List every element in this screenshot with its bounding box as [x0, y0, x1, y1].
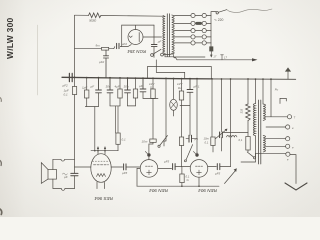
terminal circle B	[286, 125, 290, 129]
svg-text:µF2: µF2	[63, 84, 69, 88]
transformer T1 right winding	[172, 15, 174, 54]
transformer T2 right winding upper	[262, 79, 264, 104]
svg-text:D1: D1	[150, 86, 154, 90]
terminal circle row4 a	[191, 35, 195, 39]
resistor 9m (box)	[75, 48, 102, 50]
capacitor 30n (below bus 3)	[107, 78, 113, 93]
svg-text:1µF: 1µF	[82, 86, 87, 90]
svg-text:Pu: Pu	[275, 88, 279, 92]
svg-text:RGN 354: RGN 354	[127, 49, 146, 54]
wire tap C	[266, 138, 286, 140]
main HT bus	[62, 77, 212, 79]
terminal circle A	[287, 115, 291, 119]
terminal circle row4 b	[202, 35, 206, 39]
loudspeaker	[48, 170, 57, 180]
svg-text:0,1: 0,1	[239, 138, 243, 142]
tube2 top cap	[147, 153, 150, 156]
svg-text:µF: µF	[158, 40, 162, 44]
tap row 2 with fuse	[175, 22, 212, 24]
capacitor 30n (below bus 5)	[125, 78, 131, 93]
grid resistor between tubes	[158, 167, 172, 169]
transformer T2 core	[259, 100, 261, 164]
wire top antenna line	[75, 14, 89, 16]
svg-text:W/LW 300: W/LW 300	[5, 17, 15, 59]
terminal circle row3 b	[202, 29, 206, 33]
svg-text:335: 335	[240, 108, 244, 113]
terminal circle row1 b	[202, 13, 206, 17]
wire to HT arrow	[177, 59, 252, 61]
wire tap D	[266, 145, 286, 147]
bus junction dots	[74, 77, 272, 81]
margin rule	[37, 25, 39, 95]
svg-text:µF5: µF5	[164, 159, 170, 163]
cathode resistor 0,1 G	[181, 167, 183, 174]
transformer T1 core	[167, 14, 169, 56]
resistor (mid column)	[179, 137, 183, 146]
detector tube REN 904	[190, 160, 208, 178]
band switch diagonal	[184, 160, 186, 162]
resistor (zigzag) top-left	[89, 13, 101, 18]
wire voltage selector vertical	[211, 12, 216, 47]
terminal circle D	[286, 144, 290, 148]
svg-text:RES 964: RES 964	[94, 196, 113, 201]
capacitor µF (below bus 2)	[96, 78, 102, 93]
wire capacitor to rectifier	[120, 45, 131, 47]
anode resistor 0,1	[117, 144, 119, 150]
wire from resistor to transformer	[101, 15, 163, 18]
driver tube REN 904	[140, 160, 158, 178]
wire bus right end to aerial mark	[287, 71, 289, 79]
tap row 1	[175, 15, 212, 17]
wire filament tap	[174, 56, 205, 58]
terminal circle e	[286, 152, 290, 156]
wire capacitor to switch	[153, 47, 155, 57]
wire rectifier anode to transformer	[143, 36, 162, 38]
terminal circle C	[286, 137, 290, 141]
tube bottom pins	[97, 182, 105, 189]
tube3 top cap	[195, 153, 198, 156]
arrowhead HT supply	[252, 58, 258, 61]
tap row 3	[175, 30, 212, 32]
wire primary bottom	[165, 53, 174, 57]
svg-text:µF5: µF5	[215, 171, 221, 175]
resistor (zigzag, right)	[247, 79, 249, 104]
capacitor (series, speaker return)	[71, 173, 78, 175]
output tube RES 964	[91, 154, 111, 183]
wire to capacitor	[109, 47, 115, 49]
terminal circle row5 b	[202, 41, 206, 45]
svg-text:µF2: µF2	[122, 42, 128, 46]
capacitor µF1 (below bus 10)	[187, 79, 193, 93]
capacitor µF2 (to bus, below)	[103, 50, 108, 77]
transformer T2 right winding lower	[263, 136, 265, 152]
grid line inside	[94, 164, 109, 166]
svg-text:REN 904: REN 904	[149, 188, 168, 193]
output coupling cap right of tube3	[208, 166, 217, 168]
rectifier tube RGN 354	[128, 30, 143, 45]
filament squiggle inside	[97, 174, 106, 177]
svg-text:REN 904: REN 904	[198, 188, 217, 193]
svg-text:0,1: 0,1	[122, 138, 127, 142]
svg-text:50000: 50000	[89, 18, 96, 22]
aerial arrow symbol	[285, 67, 291, 71]
tick on HT wire	[221, 55, 224, 60]
svg-text:30n: 30n	[124, 85, 129, 89]
wires right of trimmer	[222, 131, 248, 133]
wire over tube top	[91, 150, 118, 152]
coupling capacitor to driver	[111, 166, 122, 168]
svg-text:µF: µF	[91, 85, 95, 89]
wire rectifier output down	[153, 25, 155, 44]
wire below fuse with arrow	[210, 51, 212, 56]
tap row 4	[175, 36, 212, 38]
fuse holder (hatched)	[209, 46, 213, 51]
speaker wire top with plug	[53, 159, 75, 169]
terminal circle row5 a	[191, 41, 195, 45]
resistor 12V D1 (below bus 9)	[181, 79, 183, 91]
transformer T2 left winding	[255, 79, 257, 103]
svg-text:30n: 30n	[106, 85, 111, 89]
trimmer capacitor with arrow	[220, 132, 223, 138]
dial lamp	[173, 79, 175, 100]
potentiometer wiper	[158, 145, 160, 147]
tap row 5	[175, 42, 212, 44]
mains switch	[216, 12, 218, 14]
svg-text:∿ 220: ∿ 220	[214, 18, 224, 22]
wire terminal to earth	[290, 155, 296, 184]
earth ground symbol	[285, 183, 307, 190]
sidebar model label W/LW 300	[5, 17, 15, 59]
wire line B	[156, 60, 184, 79]
resistor (below bus 6)	[135, 78, 137, 89]
svg-text:T: T	[294, 116, 296, 120]
resistor box (right)	[246, 137, 250, 151]
resistor R (below bus 1)	[86, 78, 88, 90]
loudspeaker terminal bracket	[280, 98, 286, 103]
speaker wire bottom with plug	[53, 179, 75, 188]
wire primary top	[163, 15, 165, 16]
wire to earth terminal	[256, 153, 286, 157]
svg-text:4µF: 4µF	[115, 85, 120, 89]
transformer T1 left winding	[163, 17, 165, 54]
svg-text:µF2: µF2	[99, 60, 105, 64]
svg-text:µF: µF	[64, 175, 68, 179]
wire grid of output tube	[75, 166, 91, 168]
switch (right lower)	[247, 150, 249, 152]
wire rectifier top loop	[122, 25, 154, 29]
coil (small, row)	[227, 135, 237, 137]
svg-text:µF5: µF5	[122, 171, 128, 175]
capacitor µF (rectifier output)	[151, 45, 157, 47]
resistor (below bus 4)	[119, 78, 121, 89]
terminal circle row1 a	[191, 13, 195, 17]
svg-text:10m: 10m	[142, 140, 148, 144]
resistor (on left vertical)	[72, 87, 76, 95]
svg-text:0,1: 0,1	[205, 140, 209, 144]
capacitor µF2 (series)	[117, 43, 119, 48]
capacitor (below bus 7)	[140, 78, 146, 92]
tube top pins with arrows	[98, 148, 105, 155]
svg-text:9m: 9m	[96, 44, 101, 48]
capacitor µF5 (row)	[189, 135, 192, 142]
cathode bottom wire	[137, 185, 219, 187]
volume control arrow	[225, 171, 236, 184]
wire tap B	[266, 126, 286, 128]
svg-text:0,1: 0,1	[64, 93, 69, 97]
jog wires at y106	[85, 107, 98, 151]
capacitor (series in bus)	[69, 73, 72, 81]
wire line A	[148, 67, 212, 79]
svg-text:D1: D1	[178, 86, 182, 90]
terminal circle row2 a	[191, 21, 195, 25]
choke coil	[163, 54, 170, 56]
fuse row2	[195, 22, 202, 25]
resistor 12V D1 (below bus 8)	[152, 78, 154, 89]
terminal circle row2 b	[202, 21, 206, 25]
edge artifacts	[0, 98, 1, 102]
terminal circle row3 a	[191, 29, 195, 33]
wire tap A	[266, 79, 287, 117]
svg-text:µF: µF	[139, 84, 143, 88]
switch after rectifier	[151, 54, 154, 57]
wire grid feeds	[196, 79, 198, 153]
mains cord	[228, 9, 273, 12]
wire left long vertical	[74, 15, 76, 188]
